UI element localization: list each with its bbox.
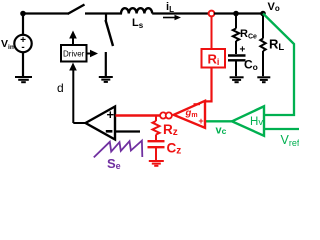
wire sense ring to Vo node: [214, 12, 263, 14]
capacitor Cz: [155, 135, 157, 141]
wire switch S1 right contact to inductor: [85, 12, 122, 14]
svg-text:Hv: Hv: [250, 116, 263, 128]
resistor Rz: [155, 116, 157, 122]
inductor Ls coil: [121, 8, 152, 13]
wire input node to switch S1: [23, 12, 69, 14]
node Vo (output node dot): [260, 11, 266, 17]
svg-text:+: +: [240, 45, 246, 56]
sense gain Ri box: [202, 49, 226, 68]
resistor RL: [262, 14, 264, 39]
ground (under Vin): [15, 77, 32, 82]
ground (red, under Cz): [149, 161, 164, 166]
svg-text:vc: vc: [216, 125, 227, 137]
node gm output (double ring): [160, 112, 166, 118]
wire green feedback Vo to Hv input: [263, 14, 294, 116]
node A (input node dot): [20, 11, 26, 17]
amp Hv (voltage loop gain): [232, 106, 264, 136]
ground (under Co): [230, 77, 244, 82]
switch S2 lower contact wire: [105, 52, 107, 77]
sawtooth Se: [94, 141, 143, 158]
switch S2 (sync switch) top contact: [105, 13, 107, 21]
voltage source Vin: [22, 14, 24, 36]
wire inductor to sense ring: [152, 12, 209, 14]
op-amp gm (error amp): [174, 101, 205, 128]
node sense point (red ring): [209, 11, 215, 17]
wire Ri to gm minus input: [205, 68, 212, 102]
svg-text:Driver: Driver: [63, 49, 85, 58]
svg-text:Vref: Vref: [281, 133, 300, 148]
svg-text:Rz: Rz: [163, 122, 178, 138]
switch S2 blade: [106, 20, 114, 46]
svg-text:RL: RL: [269, 37, 284, 54]
wire Vin to ground: [22, 52, 24, 76]
svg-text:Co: Co: [244, 58, 258, 73]
wire driver to S1 (up arrow): [72, 37, 74, 46]
svg-text:RCe: RCe: [240, 28, 257, 41]
svg-text:d: d: [57, 81, 64, 95]
ground (under RL): [257, 77, 270, 82]
svg-text:+: +: [198, 116, 203, 126]
svg-text:+: +: [107, 107, 115, 122]
svg-text:Ls: Ls: [132, 17, 144, 30]
node RCe top (junction dot): [233, 11, 239, 17]
wire vc (Hv output to gm +): [205, 120, 232, 122]
svg-text:Cz: Cz: [167, 141, 182, 157]
svg-text:iL: iL: [166, 1, 174, 14]
ground (under S2): [99, 77, 113, 82]
svg-text:Vin: Vin: [1, 38, 14, 51]
wire Vref input: [264, 128, 299, 130]
resistor RCe: [235, 14, 237, 29]
switch S1 blade (main switch, open): [68, 5, 85, 15]
sense gain Ri wire from ring: [211, 16, 213, 49]
svg-text:Se: Se: [107, 156, 121, 169]
wire comparator minus stub: [115, 130, 140, 132]
svg-text:-: -: [21, 42, 24, 53]
svg-text:Vo: Vo: [268, 1, 280, 13]
driver box U2: [61, 45, 87, 62]
wire driver to S2 (right arrow): [87, 53, 92, 55]
wire d (comparator output to driver, up arrow): [72, 67, 74, 123]
wire gm output to comparator plus: [116, 114, 161, 116]
comparator U1 (PWM): [86, 107, 116, 140]
